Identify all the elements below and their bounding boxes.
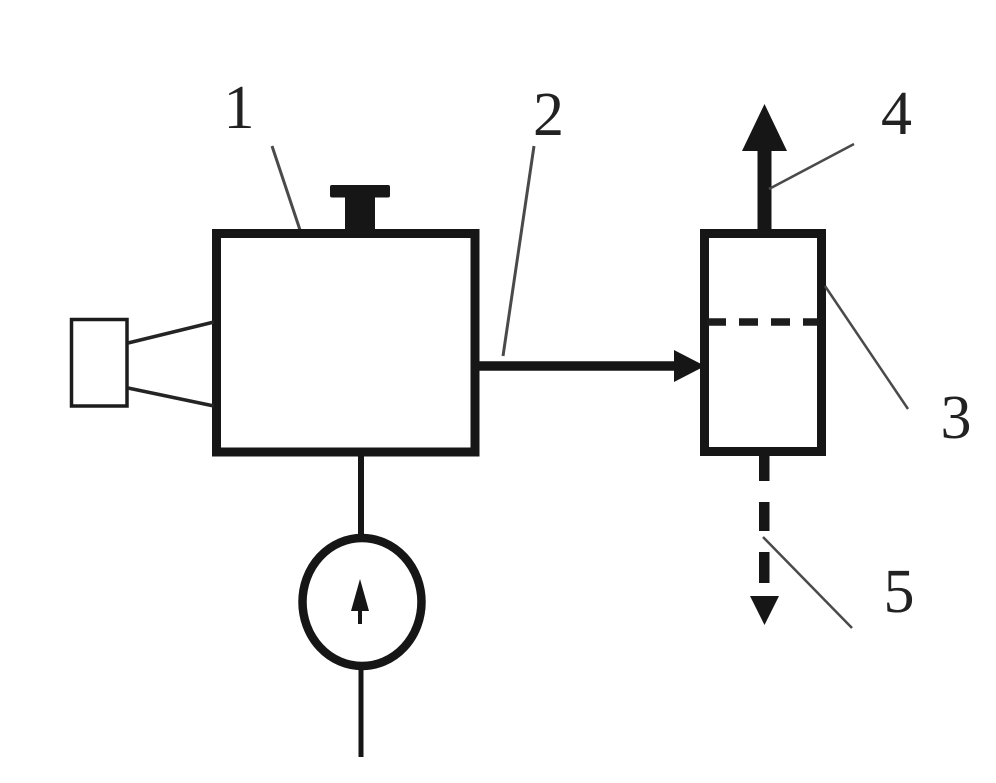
svg-text:3: 3 [941, 384, 972, 452]
leader line for label 3 [825, 286, 908, 409]
pump circle [303, 538, 422, 666]
inlet port (small left rectangle) [72, 320, 128, 407]
pump arrow head [351, 579, 369, 611]
chamber 1 (main box) [217, 234, 476, 453]
drain dash 2 [759, 552, 770, 583]
leader line for label 4 [769, 144, 854, 189]
drain arrow head (line 5) [750, 596, 779, 625]
leader line for label 5 [763, 537, 852, 628]
svg-text:4: 4 [881, 80, 912, 148]
pump suction line (chamber to pump) [358, 452, 364, 537]
funnel top line [128, 322, 214, 343]
svg-text:1: 1 [224, 74, 255, 142]
separator vessel 3 (right rectangle) [705, 234, 822, 452]
valve stem [345, 195, 375, 237]
top vent arrow head [742, 104, 787, 151]
svg-text:5: 5 [884, 558, 915, 626]
phase interface dashed line [707, 318, 819, 326]
bottom drain stem below vessel [759, 454, 770, 481]
top vent stem (line 4) [758, 148, 772, 234]
leader line for label 2 [503, 146, 534, 356]
transfer arrow head [674, 350, 705, 382]
pump inlet line (below circle) [359, 668, 364, 757]
valve cap on top of chamber [330, 185, 390, 198]
drain dash 1 [759, 502, 770, 531]
pump arrow stem [358, 609, 362, 624]
transfer arrow line (node 2) [477, 361, 678, 371]
funnel bottom line [128, 388, 214, 406]
leader line for label 1 [272, 146, 300, 230]
svg-text:2: 2 [533, 81, 564, 149]
